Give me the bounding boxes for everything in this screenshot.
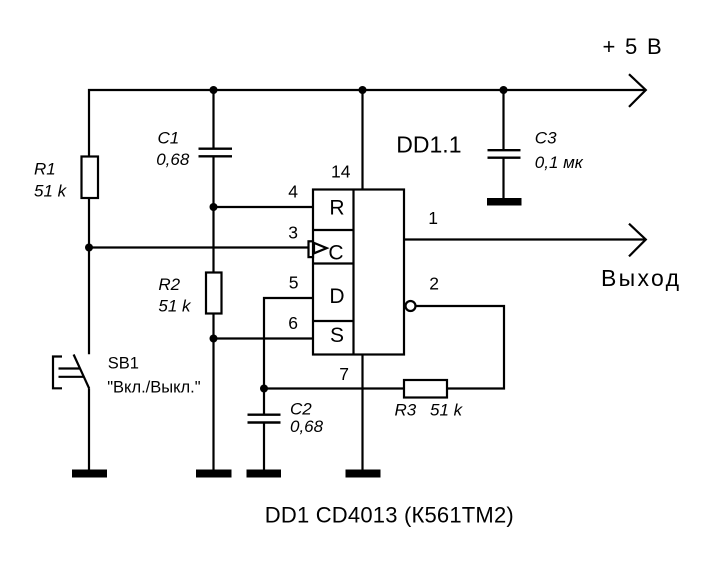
svg-text:3: 3: [288, 223, 298, 243]
svg-text:5: 5: [289, 273, 299, 293]
flip-flop cell divider D/S: [313, 320, 354, 322]
wire: to pin 4 (R): [214, 206, 314, 208]
wire: rail to C3: [502, 90, 504, 151]
wire: junction to R3: [264, 387, 404, 389]
svg-text:R: R: [329, 197, 344, 220]
clock input symbol (pin 3): [309, 241, 327, 257]
ground under pin 7: [346, 470, 381, 478]
wire: R3 to pin 2 bubble: [416, 306, 504, 389]
pin number 5: [289, 273, 299, 293]
svg-text:+ 5 В: + 5 В: [603, 34, 664, 59]
wire: C2 to ground: [263, 422, 265, 470]
label SB1: [107, 355, 201, 397]
wire: R2 bottom to ground: [212, 314, 214, 471]
wire: rail to C1: [212, 90, 214, 150]
svg-text:DD1 CD4013 (К561ТМ2): DD1 CD4013 (К561ТМ2): [265, 503, 514, 528]
capacitor C1: [199, 149, 233, 157]
pin number 3: [288, 223, 298, 243]
svg-text:C2: C2: [290, 400, 312, 419]
wire: C3 to ground: [502, 157, 504, 199]
flip-flop cell letter S: [330, 324, 344, 347]
pin number 4: [288, 182, 298, 202]
node: C1 top junction: [210, 86, 218, 94]
ground under SB1: [72, 470, 107, 478]
caption DD1 CD4013: [265, 503, 514, 528]
svg-text:1: 1: [428, 208, 438, 228]
capacitor C2: [248, 415, 281, 423]
label Выход: [601, 265, 681, 291]
pin number 1: [428, 208, 438, 228]
wire: +5V top rail: [89, 90, 645, 157]
svg-text:R1: R1: [34, 160, 56, 179]
svg-text:C3: C3: [535, 129, 557, 148]
svg-text:C1: C1: [158, 129, 180, 148]
switch SB1 actuator bracket: [53, 357, 62, 389]
pin number 7: [339, 364, 349, 384]
flip-flop cell divider R/C: [313, 229, 354, 231]
flip-flop cell letter R: [329, 197, 344, 220]
svg-text:51 k: 51 k: [158, 297, 192, 316]
svg-text:Выход: Выход: [601, 265, 681, 291]
pin number 14: [331, 161, 351, 181]
svg-text:4: 4: [288, 182, 298, 202]
flip-flop DD1.1 body (CD4013): [313, 190, 404, 355]
wire: clock wire to pin 3: [89, 246, 309, 248]
svg-text:SB1: SB1: [108, 355, 139, 373]
svg-text:0,1 мк: 0,1 мк: [535, 153, 584, 172]
wire: pin 7 to ground: [361, 355, 363, 471]
wire: pin 1 output: [404, 238, 645, 240]
label C1: [156, 129, 190, 170]
svg-text:R2: R2: [158, 275, 180, 294]
svg-text:R3: R3: [395, 400, 417, 419]
svg-text:7: 7: [339, 364, 349, 384]
wire: pin 5 (D) L-wire: [264, 298, 313, 414]
svg-text:D: D: [329, 285, 344, 308]
svg-text:51 k: 51 k: [430, 400, 464, 419]
wire: switch to ground: [88, 389, 90, 471]
node: pin14 rail junction: [359, 86, 367, 94]
pin number 6: [288, 313, 298, 333]
label R2: [158, 275, 192, 316]
label R3: [395, 400, 464, 419]
inversion bubble pin 2: [406, 301, 416, 311]
flip-flop cell letter C: [328, 242, 343, 265]
svg-text:6: 6: [288, 313, 298, 333]
resistor R2: [206, 273, 222, 314]
label DD1.1: [396, 132, 461, 158]
svg-text:0,68: 0,68: [290, 417, 324, 436]
svg-text:DD1.1: DD1.1: [396, 132, 461, 158]
+5V arrowhead: [629, 74, 646, 107]
ground under C2: [247, 470, 282, 478]
svg-text:S: S: [330, 324, 344, 347]
svg-text:51 k: 51 k: [34, 182, 68, 201]
label C3: [535, 129, 584, 172]
node: C1/R pin junction: [210, 203, 218, 211]
label C2: [290, 400, 324, 436]
output arrowhead: [629, 224, 646, 257]
label R1: [34, 160, 68, 201]
node: D/C2/R3 junction: [260, 385, 268, 393]
flip-flop cell divider C/D: [313, 262, 354, 264]
resistor R3: [404, 380, 447, 398]
node: C3 rail junction: [500, 86, 508, 94]
svg-text:14: 14: [331, 161, 351, 181]
svg-text:2: 2: [429, 274, 439, 294]
ground under R2: [196, 470, 232, 478]
node: R1/SB1/clock junction: [85, 244, 93, 252]
wire: to pin 6 (S): [214, 337, 314, 339]
wire: pin 14 to rail: [361, 90, 363, 190]
capacitor C3: [488, 150, 521, 158]
flip-flop label column divider: [352, 190, 354, 355]
flip-flop cell letter D: [329, 285, 344, 308]
svg-text:0,68: 0,68: [156, 150, 190, 169]
node: R2/S pin junction: [210, 335, 218, 343]
svg-text:"Вкл./Выкл.": "Вкл./Выкл.": [107, 379, 201, 397]
switch SB1 lever: [74, 355, 90, 389]
ground under C3: [487, 198, 522, 206]
svg-text:C: C: [328, 242, 343, 265]
switch SB1 plunger lines: [59, 369, 85, 377]
label +5V: [603, 34, 664, 59]
pin number 2: [429, 274, 439, 294]
wire: C1 bottom to R2 top: [212, 156, 214, 273]
wire: R1 bottom to switch: [88, 198, 90, 354]
resistor R1: [82, 157, 99, 199]
